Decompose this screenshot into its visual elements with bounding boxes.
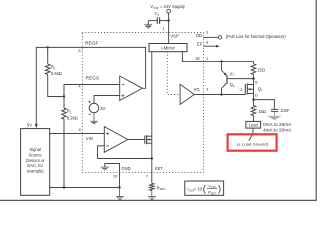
wire EF with arrow bbox=[203, 45, 216, 47]
svg-text:example): example) bbox=[27, 168, 44, 173]
svg-text:15Ω: 15Ω bbox=[258, 109, 266, 114]
wire 3V to A1 plus input bbox=[94, 96, 120, 104]
svg-text:Q2: Q2 bbox=[230, 82, 235, 88]
signal source box bbox=[21, 129, 50, 196]
wire A2 feedback bbox=[98, 146, 152, 159]
capacitor C1 bbox=[148, 17, 168, 24]
node D bbox=[252, 98, 254, 100]
svg-text:R2: R2 bbox=[67, 109, 72, 115]
svg-text:10: 10 bbox=[113, 174, 118, 179]
svg-text:VIN: VIN bbox=[86, 136, 93, 141]
transistor Q1 bbox=[245, 79, 253, 100]
wire OD bbox=[203, 36, 218, 38]
wire VIN bbox=[50, 133, 105, 135]
svg-text:DAC, for: DAC, for bbox=[27, 163, 43, 168]
node C1/VSP junction bbox=[167, 19, 169, 21]
svg-text:8.2kΩ: 8.2kΩ bbox=[67, 115, 78, 120]
capacitor C2 10nF bbox=[271, 109, 279, 111]
svg-text:Source: Source bbox=[29, 153, 43, 158]
op-amp A2 bbox=[104, 127, 128, 153]
node divider bbox=[63, 95, 65, 97]
wire REGF loop: A1 output up and left to pin 5 and down to source arrow bbox=[36, 47, 145, 124]
op-amp I-Mirror block bbox=[149, 44, 187, 52]
svg-text:Signal: Signal bbox=[30, 147, 41, 152]
wire REGS bbox=[64, 85, 120, 97]
wire IS rail bbox=[203, 60, 253, 62]
svg-text:IS: IS bbox=[196, 56, 200, 61]
ground (RSET) bbox=[148, 191, 156, 200]
wire ground rail bbox=[50, 187, 120, 189]
node R2 to rail bbox=[63, 186, 65, 188]
op-amp VG buffer bbox=[180, 84, 194, 104]
wire VG to gate bbox=[194, 94, 245, 96]
OD terminal circle bbox=[218, 36, 221, 39]
svg-text:= 10: = 10 bbox=[194, 186, 203, 191]
plus sign bbox=[89, 101, 91, 115]
svg-text:OD: OD bbox=[196, 33, 203, 38]
svg-text:5.6kΩ: 5.6kΩ bbox=[51, 71, 62, 76]
svg-text:3V: 3V bbox=[100, 106, 105, 111]
svg-text:(: ( bbox=[203, 184, 206, 194]
svg-text:RSET: RSET bbox=[157, 185, 166, 191]
svg-text:(± Load Ground): (± Load Ground) bbox=[237, 141, 269, 146]
wire SET pin bbox=[151, 159, 153, 184]
svg-text:VG: VG bbox=[194, 87, 200, 92]
ground (external) bbox=[116, 188, 124, 200]
resistor RSET bbox=[150, 183, 155, 190]
resistor R1 5.6k bbox=[47, 47, 49, 64]
node VG/Q2 collector junction bbox=[220, 93, 222, 95]
ground (C1) bbox=[144, 21, 152, 28]
svg-text:VSP: VSP bbox=[170, 34, 179, 39]
svg-text:): ) bbox=[218, 184, 221, 194]
svg-text:0mA to 20mA: 0mA to 20mA bbox=[263, 122, 292, 127]
load box bbox=[246, 121, 261, 128]
svg-text:I-Mirror: I-Mirror bbox=[161, 45, 175, 50]
5V arrowhead into signal source bbox=[35, 124, 38, 128]
node SET junction bbox=[151, 157, 153, 159]
svg-text:(Pull Low for Normal Operation: (Pull Low for Normal Operation) bbox=[226, 34, 286, 39]
node GND rail bbox=[118, 186, 120, 188]
node S bbox=[252, 77, 254, 79]
svg-text:10nF: 10nF bbox=[280, 108, 290, 113]
formula box bbox=[185, 181, 224, 195]
svg-text:EF: EF bbox=[197, 42, 203, 47]
wire I-Mirror down rail (internal mirror to M1) bbox=[151, 52, 153, 159]
wire load to ground (diagonal) bbox=[249, 128, 253, 141]
ground (3V) bbox=[90, 113, 98, 124]
transistor Q2 bbox=[222, 61, 254, 94]
voltage source 3V bbox=[89, 103, 99, 113]
internal ground GND bbox=[105, 164, 120, 173]
svg-text:5V: 5V bbox=[27, 122, 32, 127]
svg-text:(Sensor or: (Sensor or bbox=[26, 158, 46, 163]
svg-text:SET: SET bbox=[155, 166, 164, 171]
resistor R2 8.2k bbox=[63, 97, 65, 109]
svg-text:C1: C1 bbox=[155, 11, 160, 17]
transistor M1 internal mosfet bbox=[128, 135, 152, 144]
svg-text:REGS: REGS bbox=[86, 75, 100, 80]
wire I-Mirror to IS pin bbox=[182, 52, 203, 62]
supply terminal circle bbox=[167, 9, 171, 13]
node IS/Q2 junction bbox=[220, 60, 222, 62]
svg-text:R1: R1 bbox=[51, 65, 56, 71]
svg-text:REGF: REGF bbox=[85, 40, 99, 45]
wire VSP supply vertical bbox=[168, 13, 170, 43]
svg-text:4mA to 20mA: 4mA to 20mA bbox=[263, 127, 292, 132]
svg-text:Load: Load bbox=[249, 123, 259, 128]
wire D to C2 bbox=[254, 100, 275, 110]
resistor RS2 15ohm bbox=[253, 100, 255, 106]
wire GND pin to rail bbox=[119, 173, 121, 188]
svg-text:S: S bbox=[255, 80, 258, 85]
red annotation box bbox=[228, 134, 277, 150]
svg-text:G: G bbox=[240, 87, 243, 92]
svg-text:(1): (1) bbox=[230, 72, 234, 76]
resistor RS1 15ohm bbox=[253, 61, 255, 63]
ground (10nF) bbox=[268, 111, 281, 119]
svg-text:15Ω: 15Ω bbox=[257, 67, 265, 72]
svg-text:D: D bbox=[255, 92, 258, 97]
chip boundary (dotted) bbox=[82, 33, 203, 173]
svg-text:Q1: Q1 bbox=[258, 86, 263, 92]
node REGF/R1 bbox=[47, 46, 49, 48]
op-amp A1 bbox=[120, 76, 143, 101]
wire dotted I-Mirror to VG buffer input bbox=[167, 52, 180, 95]
svg-text:GND: GND bbox=[121, 166, 130, 171]
